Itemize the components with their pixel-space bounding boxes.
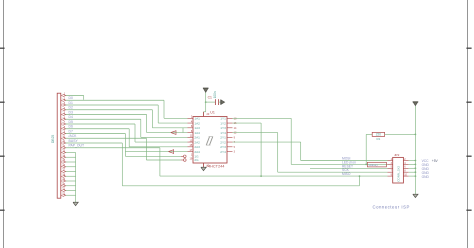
svg-text:U1: U1 — [210, 110, 215, 114]
svg-text:D2: D2 — [69, 106, 73, 110]
svg-text:2A1: 2A1 — [194, 136, 200, 140]
svg-text:GND: GND — [422, 175, 430, 179]
svg-text:D1: D1 — [69, 101, 73, 105]
svg-text:1Y2: 1Y2 — [220, 121, 226, 125]
svg-text:2A2: 2A2 — [194, 140, 200, 144]
svg-text:2G: 2G — [194, 158, 199, 162]
svg-text:100n: 100n — [213, 91, 217, 98]
svg-text:12: 12 — [234, 132, 237, 135]
svg-text:JP2: JP2 — [394, 153, 400, 157]
svg-text:2Y1: 2Y1 — [220, 136, 226, 140]
svg-text:R1: R1 — [376, 137, 380, 141]
svg-text:1A3: 1A3 — [194, 126, 200, 130]
svg-text:+5V: +5V — [432, 159, 439, 163]
svg-text:3: 3 — [234, 151, 236, 154]
svg-text:16: 16 — [234, 122, 237, 125]
svg-text:BUSY: BUSY — [69, 139, 79, 143]
svg-text:2Y3: 2Y3 — [220, 145, 226, 149]
svg-text:1A1: 1A1 — [194, 117, 200, 121]
svg-text:CONN_3X2: CONN_3X2 — [397, 166, 401, 182]
svg-text:2Y4: 2Y4 — [220, 150, 226, 154]
svg-text:9: 9 — [234, 136, 236, 139]
svg-text:Connecteur ISP: Connecteur ISP — [373, 204, 410, 209]
svg-text:C1: C1 — [208, 95, 212, 99]
svg-text:2A3: 2A3 — [194, 145, 200, 149]
svg-text:1A2: 1A2 — [194, 121, 200, 125]
svg-text:5: 5 — [234, 146, 236, 149]
svg-text:/ACK: /ACK — [69, 134, 78, 138]
svg-text:D5: D5 — [69, 120, 73, 124]
svg-text:MISO: MISO — [342, 172, 351, 176]
svg-text:utilisé): utilisé) — [369, 163, 378, 167]
svg-text:1Y3: 1Y3 — [220, 126, 226, 130]
svg-text:D6: D6 — [69, 125, 73, 129]
svg-text:1A4: 1A4 — [194, 131, 200, 135]
svg-text:D4: D4 — [69, 115, 73, 119]
svg-text:1Y4: 1Y4 — [220, 131, 226, 135]
svg-text:2A4: 2A4 — [194, 150, 200, 154]
svg-text:7: 7 — [234, 141, 236, 144]
svg-text:PAP_OUT: PAP_OUT — [69, 144, 85, 148]
svg-text:D0: D0 — [69, 96, 73, 100]
svg-text:18: 18 — [234, 117, 237, 120]
svg-text:14: 14 — [234, 127, 237, 130]
svg-text:2Y2: 2Y2 — [220, 140, 226, 144]
svg-text:19: 19 — [190, 157, 193, 160]
svg-text:D7: D7 — [69, 129, 73, 133]
svg-text:DB25: DB25 — [51, 135, 55, 143]
svg-text:D3: D3 — [69, 110, 73, 114]
svg-text:1Y1: 1Y1 — [220, 117, 226, 121]
